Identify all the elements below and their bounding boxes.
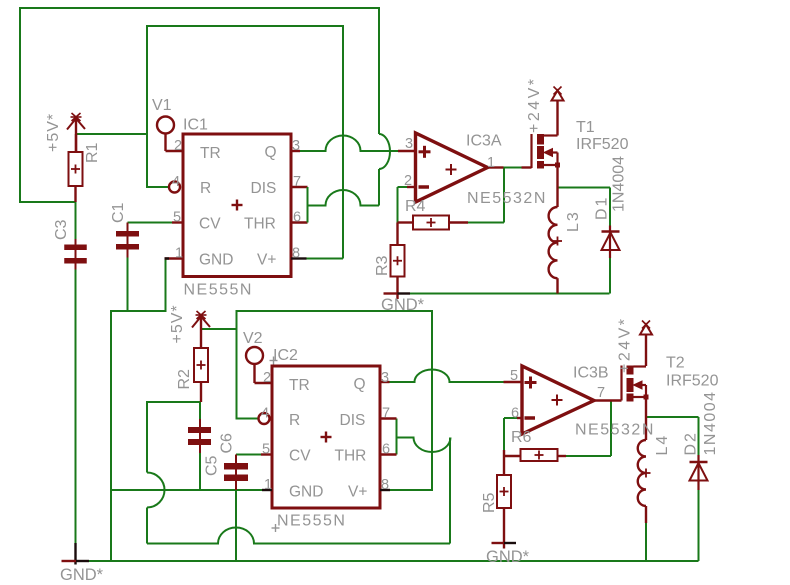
svg-text:T2: T2 xyxy=(666,355,685,372)
svg-text:DIS: DIS xyxy=(340,412,366,429)
svg-text:V+: V+ xyxy=(257,252,276,269)
svg-text:3: 3 xyxy=(292,138,300,154)
svg-text:R6: R6 xyxy=(511,429,532,446)
svg-text:3: 3 xyxy=(405,136,413,152)
svg-text:GND*: GND* xyxy=(60,566,104,584)
svg-text:5: 5 xyxy=(173,210,181,226)
svg-text:TR: TR xyxy=(200,145,221,162)
svg-text:C3: C3 xyxy=(53,219,70,240)
svg-text:Q: Q xyxy=(265,144,277,161)
svg-text:IRF520: IRF520 xyxy=(666,373,719,390)
svg-text:V2: V2 xyxy=(243,330,263,347)
svg-text:8: 8 xyxy=(381,477,389,493)
svg-text:TR: TR xyxy=(289,377,310,394)
svg-text:D2: D2 xyxy=(683,431,700,455)
svg-text:+5V*: +5V* xyxy=(45,113,62,152)
svg-text:IC3A: IC3A xyxy=(466,133,502,150)
svg-text:1: 1 xyxy=(264,477,272,493)
svg-text:NE555N: NE555N xyxy=(277,513,346,530)
svg-text:2: 2 xyxy=(404,173,412,189)
svg-text:+24V*: +24V* xyxy=(526,76,543,133)
svg-text:C5: C5 xyxy=(204,455,221,476)
svg-text:CV: CV xyxy=(199,216,221,233)
svg-text:GND*: GND* xyxy=(486,548,530,566)
svg-text:1: 1 xyxy=(487,155,495,171)
svg-text:2: 2 xyxy=(263,370,271,386)
svg-text:GND: GND xyxy=(289,484,323,501)
svg-text:R3: R3 xyxy=(374,255,391,276)
svg-text:Q: Q xyxy=(354,376,366,393)
svg-text:R5: R5 xyxy=(481,492,498,513)
svg-text:CV: CV xyxy=(289,448,311,465)
svg-text:IRF520: IRF520 xyxy=(576,136,629,153)
svg-text:IC2: IC2 xyxy=(273,347,298,364)
svg-text:T1: T1 xyxy=(576,119,595,136)
svg-text:1N4004: 1N4004 xyxy=(611,156,628,212)
svg-text:NE5532N: NE5532N xyxy=(467,190,547,207)
svg-text:GND*: GND* xyxy=(381,296,425,314)
svg-text:V1: V1 xyxy=(152,97,172,114)
svg-text:5: 5 xyxy=(510,368,518,384)
svg-text:7: 7 xyxy=(597,385,605,401)
svg-text:2: 2 xyxy=(174,138,182,154)
svg-text:1: 1 xyxy=(175,246,183,262)
svg-text:6: 6 xyxy=(382,442,390,458)
svg-text:R: R xyxy=(200,180,211,197)
svg-text:4: 4 xyxy=(172,174,180,190)
svg-text:6: 6 xyxy=(293,210,301,226)
svg-text:IC1: IC1 xyxy=(183,117,208,134)
svg-text:R: R xyxy=(289,412,300,429)
svg-text:NE5532N: NE5532N xyxy=(575,422,655,439)
svg-text:DIS: DIS xyxy=(251,180,277,197)
svg-text:L3: L3 xyxy=(565,210,582,232)
svg-text:D1: D1 xyxy=(594,196,611,220)
svg-text:4: 4 xyxy=(261,406,269,422)
svg-text:R1: R1 xyxy=(84,142,101,163)
svg-text:GND: GND xyxy=(199,252,233,269)
svg-text:C1: C1 xyxy=(110,202,127,223)
svg-text:+24V*: +24V* xyxy=(617,316,634,373)
svg-text:NE555N: NE555N xyxy=(184,282,253,299)
svg-text:R4: R4 xyxy=(405,198,426,215)
svg-text:7: 7 xyxy=(293,174,301,190)
svg-text:V+: V+ xyxy=(348,484,367,501)
svg-text:3: 3 xyxy=(381,370,389,386)
svg-text:THR: THR xyxy=(244,216,276,233)
svg-text:+5V*: +5V* xyxy=(169,304,186,343)
svg-text:L4: L4 xyxy=(654,434,671,456)
svg-text:5: 5 xyxy=(262,442,270,458)
svg-text:7: 7 xyxy=(382,406,390,422)
svg-text:THR: THR xyxy=(335,448,367,465)
svg-text:8: 8 xyxy=(292,246,300,262)
svg-text:IC3B: IC3B xyxy=(573,365,609,382)
svg-text:C6: C6 xyxy=(219,433,236,454)
svg-text:6: 6 xyxy=(511,406,519,422)
svg-text:1N4004: 1N4004 xyxy=(702,390,719,455)
svg-text:R2: R2 xyxy=(176,369,193,390)
